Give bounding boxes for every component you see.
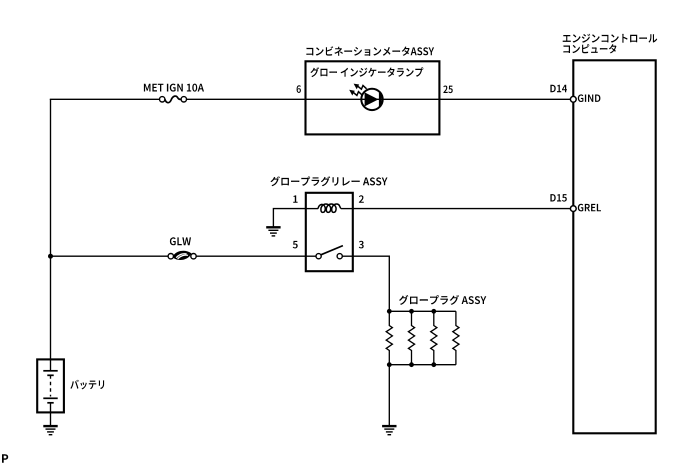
wire: relay switch pin 3 to glow plug bus [353, 256, 390, 311]
box: combination meter ASSY [306, 61, 440, 134]
node: glow plug top bus junctions [387, 309, 436, 314]
wire: through combination meter box (LED anode/cathode) [306, 98, 440, 100]
box: engine control computer (ECU) [573, 60, 655, 433]
label: engine control computer line2 [563, 44, 616, 53]
pin D15 terminal circle [570, 206, 576, 212]
label: battery [70, 380, 104, 390]
fusible link GLW [168, 251, 196, 260]
wire: battery negative to ground [50, 412, 52, 425]
label: MET IGN 10A [144, 84, 204, 92]
wire: top feed from battery bus to fuse MET IGN [50, 98, 160, 100]
label: relay pin 5 [293, 241, 298, 249]
battery [37, 359, 64, 412]
label: glow indicator lamp [310, 67, 423, 77]
label: pin 25 [443, 86, 452, 94]
wire: glow plug bus to ground [388, 365, 390, 426]
LED glow indicator lamp [349, 84, 382, 111]
label: combination meter ASSY [306, 46, 434, 56]
ground: relay coil ground [266, 227, 280, 236]
box: glow plug relay ASSY [306, 193, 353, 271]
label: relay pin 3 [359, 241, 364, 249]
label: relay pin 1 [293, 195, 297, 202]
relay switch contacts [306, 246, 353, 259]
ground: glow plug ground [382, 426, 396, 435]
label: relay pin 2 [359, 195, 364, 203]
resistor: glow plug 4 [453, 311, 459, 364]
label: GLW [170, 237, 191, 245]
label: GREL [578, 204, 601, 212]
wire: glow plug top bus [389, 310, 456, 312]
wire: meter pin 25 to ECU pin D14 [439, 98, 570, 100]
label: glow plug ASSY [399, 295, 486, 305]
label: engine control computer line1 [563, 34, 658, 43]
wire: fuse MET IGN to combination meter pin 6 [186, 98, 305, 100]
wire: fusible link GLW to relay switch pin 5 [196, 255, 306, 257]
label: pin 6 [297, 85, 301, 93]
label: page marker P [2, 454, 8, 463]
label: GIND [578, 94, 601, 102]
wire: battery positive vertical (left bus) [50, 99, 52, 360]
resistor: glow plug 2 [408, 311, 414, 364]
node: glow plug bottom bus junctions [387, 362, 436, 367]
fuse MET IGN 10A [160, 96, 187, 103]
wire: relay coil pin 1 to ground branch [273, 209, 305, 227]
node: junction dot at battery bus / GLW branch [48, 254, 53, 259]
wire: glow plug bottom bus [389, 364, 456, 366]
label: D15 [550, 194, 566, 202]
relay coil L [306, 204, 353, 212]
wire: battery bus junction to fusible link GLW [51, 255, 169, 257]
wire: relay coil pin 2 to ECU pin D15 [353, 208, 571, 210]
label: glow plug relay ASSY [270, 176, 387, 186]
pin D14 terminal circle [570, 96, 576, 102]
label: D14 [550, 85, 567, 92]
ground: battery ground [43, 426, 57, 435]
resistor: glow plug 3 [431, 311, 437, 364]
resistor: glow plug 1 [386, 311, 392, 364]
